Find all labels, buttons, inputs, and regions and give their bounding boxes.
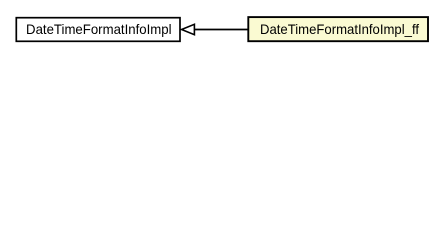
svg-text:DateTimeFormatInfoImpl_ff: DateTimeFormatInfoImpl_ff — [260, 22, 419, 37]
svg-text:DateTimeFormatInfoImpl: DateTimeFormatInfoImpl — [26, 22, 172, 37]
wire: inheritance connector line — [194, 29, 248, 31]
hollow inheritance arrowhead pointing at DateTimeFormatInfoImpl — [182, 24, 195, 34]
class box DateTimeFormatInfoImpl_ff (highlighted) — [248, 17, 428, 41]
class box DateTimeFormatInfoImpl — [16, 18, 180, 42]
